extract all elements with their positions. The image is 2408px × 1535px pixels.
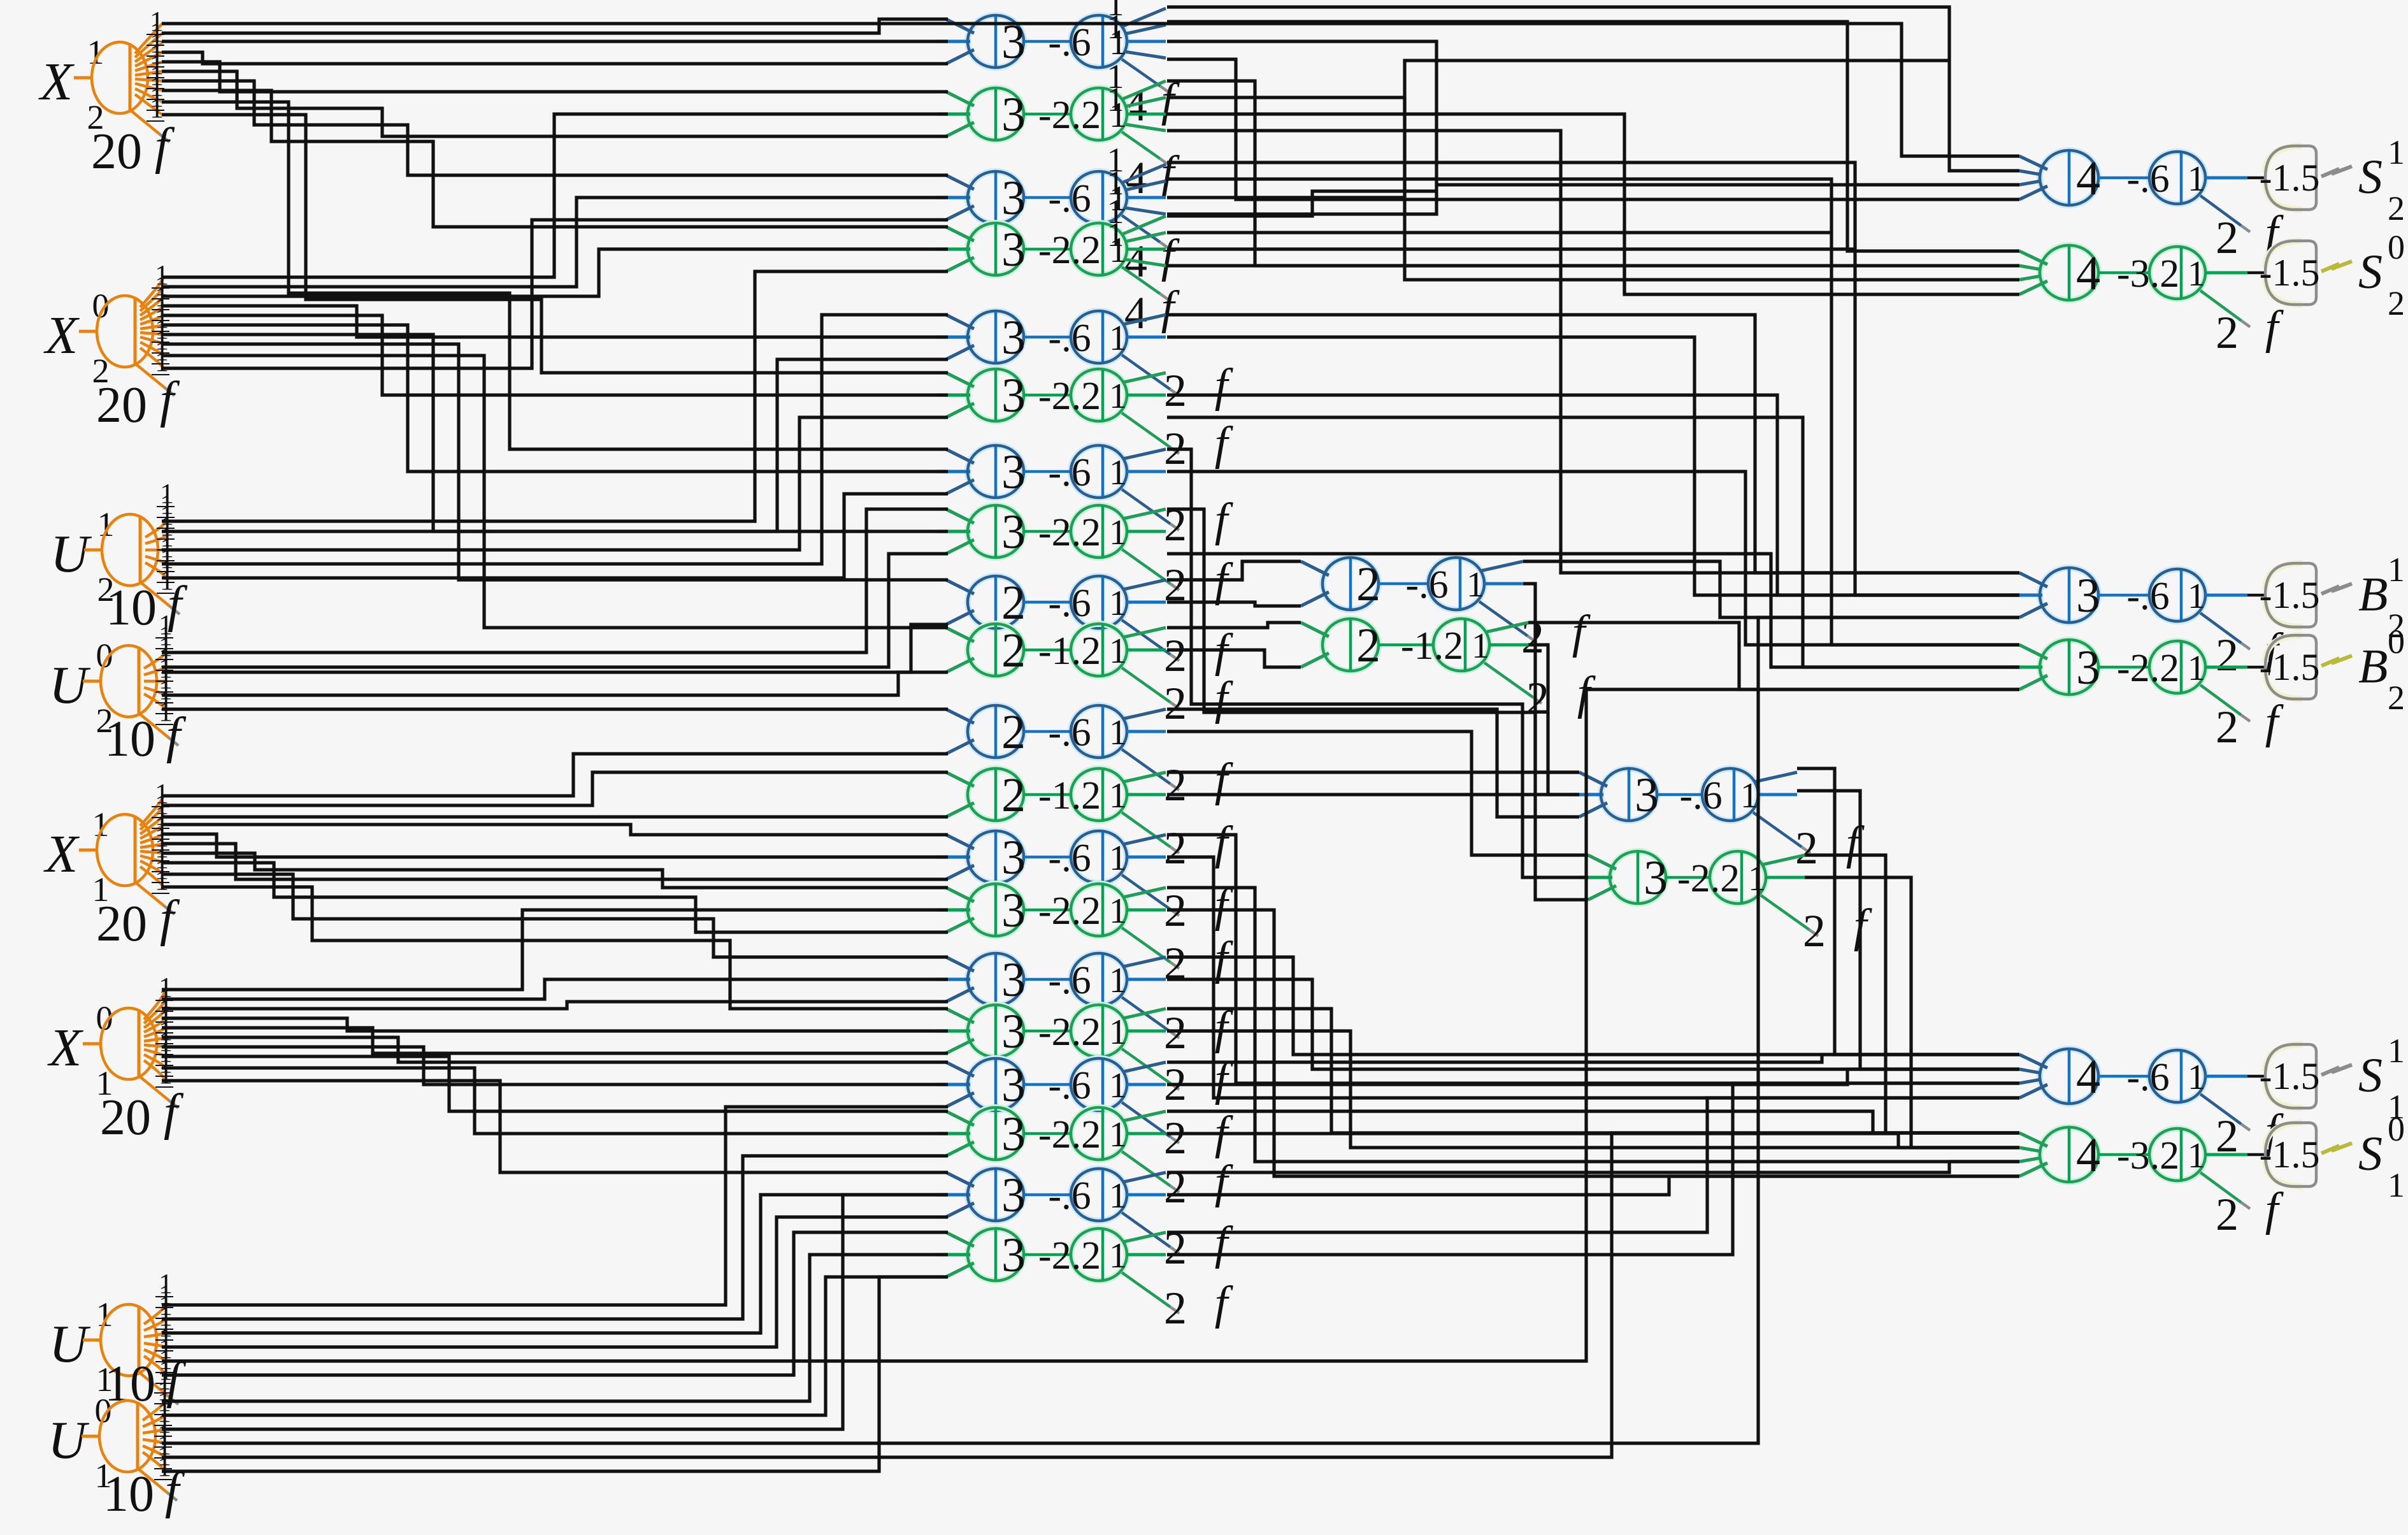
wire U1_0 out2 to N20 soma xyxy=(162,1277,948,1415)
svg-text:-2.2: -2.2 xyxy=(1038,94,1101,137)
wire N13 syn out2 to S1_1 soma xyxy=(1167,857,2019,1098)
wire N12 syn out1 to M3 soma xyxy=(1167,770,1579,774)
input neuron U1_1 (U11) xyxy=(49,1268,187,1412)
svg-text:-1.5: -1.5 xyxy=(2260,1134,2320,1176)
svg-text:-2.2: -2.2 xyxy=(1038,1113,1101,1157)
wire U2_1 out4 to N5 soma xyxy=(162,315,948,564)
neuron pair N13 (blue) xyxy=(937,831,1234,936)
wire M3 syn out1 to S1_1 soma xyxy=(1797,768,2019,1055)
svg-text:U: U xyxy=(49,656,91,715)
wire N3 syn out1 to B2_1 soma xyxy=(1167,162,2019,595)
neuron pair N6 (green) xyxy=(937,369,1234,474)
svg-text:20: 20 xyxy=(91,124,142,180)
svg-text:-.6: -.6 xyxy=(2126,575,2169,618)
wire N14 syn out2 to S1_0 soma xyxy=(1167,910,2019,1176)
svg-text:-.6: -.6 xyxy=(1048,582,1091,625)
neuron pair N20 (green) xyxy=(937,1229,1234,1334)
wire X1_1 out8 to N14 soma xyxy=(162,863,948,932)
svg-text:1: 1 xyxy=(1107,215,1124,254)
neuron pair M1 (blue) xyxy=(1301,558,1591,663)
wire U1_0 out5 to S1_0 soma xyxy=(162,1133,2019,1457)
svg-text:2: 2 xyxy=(1164,938,1187,989)
neuron pair M2 (green) xyxy=(1301,619,1596,724)
neuron pair N5 (blue) xyxy=(937,311,1234,416)
wire N9 syn out1 to M1 soma xyxy=(1167,561,1301,580)
svg-text:3: 3 xyxy=(1635,768,1659,822)
svg-text:-1.2: -1.2 xyxy=(1038,630,1101,673)
wire X2_0 out4 to N5 soma xyxy=(162,306,948,337)
wire N4 syn out1 junction xyxy=(1167,191,1437,216)
wire N11 syn out2 to M4 soma xyxy=(1167,731,1588,855)
wire X2_0 out10 to N3 soma xyxy=(162,220,948,368)
svg-text:2: 2 xyxy=(1164,760,1187,811)
svg-text:X: X xyxy=(47,1018,84,1077)
neuron pair N7 (blue) xyxy=(937,445,1234,551)
svg-text:10: 10 xyxy=(106,580,157,636)
wire X2_1 out2 to N1 soma xyxy=(162,19,948,33)
wire U1_1 out3 to N19 soma xyxy=(162,1195,948,1333)
input neuron U0_1 (U10) xyxy=(48,1364,185,1522)
svg-text:S: S xyxy=(2358,1127,2383,1181)
svg-text:2: 2 xyxy=(1164,1223,1187,1274)
wire X2_1 out7 to N3 soma xyxy=(162,81,948,175)
wire U2_1 out5 to N7 soma xyxy=(162,494,948,578)
svg-text:2: 2 xyxy=(1795,823,1818,874)
svg-text:2: 2 xyxy=(2388,189,2405,227)
svg-text:-2.2: -2.2 xyxy=(1038,890,1101,933)
neuron pair N3 (blue) xyxy=(937,141,1180,287)
svg-text:3: 3 xyxy=(1001,223,1026,277)
wire N10 syn out2 to M2 soma xyxy=(1167,650,1301,667)
svg-text:2: 2 xyxy=(2216,630,2239,681)
svg-text:B: B xyxy=(2358,568,2388,621)
svg-text:3: 3 xyxy=(1001,1107,1026,1161)
wire M1 syn out2 to M3 soma xyxy=(1523,584,1579,772)
wire X1_1 out6 to N13 soma xyxy=(162,844,948,879)
svg-text:3: 3 xyxy=(1001,369,1026,422)
wire X1_1 out1 to N11 soma xyxy=(162,754,948,796)
wire U1_1 out5 to B2_0 soma xyxy=(162,689,2019,1361)
wire U1_0 out3 to N19 soma xyxy=(162,1195,948,1429)
neuron pair N12 (green) xyxy=(946,768,1234,874)
svg-text:U: U xyxy=(50,524,92,584)
svg-text:2: 2 xyxy=(1164,823,1187,874)
svg-text:3: 3 xyxy=(1001,445,1026,499)
wire N7 syn out1 to M4 soma xyxy=(1167,449,1588,877)
input neuron X1_1 (X11) xyxy=(43,778,180,952)
svg-text:3: 3 xyxy=(1001,831,1026,884)
wire U2_0 out5 to N11 soma xyxy=(162,707,948,710)
svg-text:B: B xyxy=(2358,640,2388,693)
svg-text:-1.5: -1.5 xyxy=(2260,1055,2320,1097)
svg-text:-2.2: -2.2 xyxy=(1038,229,1101,272)
svg-text:10: 10 xyxy=(104,1356,155,1412)
wire U2_0 out2 to N8 soma xyxy=(162,554,948,667)
svg-text:3: 3 xyxy=(1001,1229,1026,1282)
wire X1_1 out3 to N12 soma xyxy=(162,815,948,818)
wire N6 syn out2 to B2_0 soma xyxy=(1167,417,2019,667)
wire X2_0 out2 to N3 soma xyxy=(162,198,948,287)
wire N6 syn out1 to B2_1 soma xyxy=(1167,395,2019,595)
svg-text:3: 3 xyxy=(1001,505,1026,559)
svg-text:3: 3 xyxy=(2076,641,2100,695)
wire X2_0 out5 to N6 soma xyxy=(162,315,948,395)
wire X2_1 out4 to N1 soma xyxy=(162,52,948,64)
svg-text:3: 3 xyxy=(1001,884,1026,937)
wire X1_0 out9 to N18 soma xyxy=(162,1068,948,1134)
wire X1_0 out2 to N15 soma xyxy=(162,979,948,999)
wire N17 syn out1 to S1_1 soma xyxy=(1167,1055,2019,1062)
svg-text:-2.2: -2.2 xyxy=(1677,857,1740,900)
wire U1_1 out4 to N19 soma xyxy=(162,1217,948,1347)
svg-text:2: 2 xyxy=(1356,558,1380,611)
svg-text:-.6: -.6 xyxy=(1679,774,1722,818)
svg-text:2: 2 xyxy=(2216,307,2239,358)
svg-text:1: 1 xyxy=(2388,551,2405,589)
svg-text:3: 3 xyxy=(2076,569,2100,623)
wire X1_0 out8 to N18 soma xyxy=(162,1056,948,1111)
neuron pair N8 (green) xyxy=(937,505,1234,610)
wire N9 syn out2 to M1 soma xyxy=(1167,602,1301,606)
svg-text:2: 2 xyxy=(1803,905,1826,956)
wire U1_0 out4 to B2_1 soma xyxy=(162,617,2019,1443)
wire X2_1 out9 to N7 soma xyxy=(162,102,948,449)
wire N16 syn out1 to S1_0 soma xyxy=(1167,1009,2019,1133)
output neuron pair R4 -> B0_2 xyxy=(2010,623,2405,753)
svg-text:-.6: -.6 xyxy=(1048,959,1091,1002)
svg-text:-1.5: -1.5 xyxy=(2260,157,2320,199)
wire X2_0 out3 to N4 soma xyxy=(162,249,948,296)
wire U2_0 out1 to N8 soma xyxy=(162,509,948,652)
svg-text:1: 1 xyxy=(1107,80,1124,119)
wire U1_0 out6 to N20 soma xyxy=(162,1277,948,1471)
svg-text:2: 2 xyxy=(1526,673,1549,724)
svg-text:2: 2 xyxy=(1164,630,1187,681)
svg-text:S: S xyxy=(2358,150,2383,204)
svg-text:1: 1 xyxy=(1107,8,1124,46)
svg-text:-2.2: -2.2 xyxy=(1038,375,1101,418)
wire M4 syn out1 to S1_0 soma xyxy=(1805,855,2019,1133)
svg-text:4: 4 xyxy=(2076,1050,2100,1104)
wire X1_1 out4 to N13 soma xyxy=(162,825,948,835)
wire N3 syn out2 to B2_0 soma xyxy=(1167,179,2019,645)
svg-text:-.6: -.6 xyxy=(1048,451,1091,494)
wire N18 syn out2 to S1_0 soma xyxy=(1167,1134,2019,1148)
wire N4 syn out2 junction xyxy=(1167,231,1831,234)
neuron pair N17 (blue) xyxy=(937,1058,1234,1164)
svg-text:3: 3 xyxy=(1001,1169,1026,1222)
svg-text:-1.2: -1.2 xyxy=(1038,774,1101,818)
wire N18 syn out1 to S1_0 soma xyxy=(1167,1111,2019,1133)
input neuron X0_1 (X10) xyxy=(47,972,184,1146)
wire N5 syn out2 to B2_1 soma xyxy=(1167,337,2019,595)
svg-text:U: U xyxy=(48,1411,90,1470)
svg-text:1: 1 xyxy=(2388,1032,2405,1070)
svg-text:2: 2 xyxy=(1521,612,1544,663)
neuron pair M3 (blue) xyxy=(1570,768,1865,874)
svg-text:1: 1 xyxy=(2188,254,2205,294)
wire N2 syn out2 to S2_0 soma xyxy=(1167,97,2019,280)
svg-text:-.6: -.6 xyxy=(1048,1064,1091,1107)
svg-text:2: 2 xyxy=(1164,1113,1187,1164)
neuron pair N2 (green) xyxy=(937,57,1180,203)
wire N12 syn out2 to M3 soma xyxy=(1167,793,1579,796)
svg-text:1: 1 xyxy=(2388,1166,2405,1204)
neuron pair N4 (green) xyxy=(937,192,1180,338)
svg-text:2: 2 xyxy=(1001,576,1026,630)
wire X2_1 out8 to N4 soma xyxy=(162,90,948,227)
input neuron X0_2 (X20) xyxy=(43,259,180,433)
svg-text:20: 20 xyxy=(96,896,147,952)
svg-text:0: 0 xyxy=(2388,1110,2405,1148)
svg-text:2: 2 xyxy=(1164,1283,1187,1334)
wire X2_1 out5 to N2 soma xyxy=(162,62,948,92)
wire X1_0 out7 to N17 soma xyxy=(162,1047,948,1085)
wire N1 syn out4 to S2_1 soma xyxy=(1167,59,2019,199)
wire X2_1 out10 to N6 soma xyxy=(162,115,948,373)
input neuron U0_2 (U20) xyxy=(49,609,187,767)
neuron pair N10 (green) xyxy=(946,624,1234,729)
svg-text:S: S xyxy=(2358,245,2383,299)
svg-text:4: 4 xyxy=(2076,152,2100,205)
neuron pair N1 (blue) xyxy=(937,0,1180,131)
wire X2_1 out6 to N2 soma xyxy=(162,71,948,136)
svg-text:-.6: -.6 xyxy=(1048,1174,1091,1218)
wire M4 syn out2 to S1_0 soma xyxy=(1805,877,2019,1148)
svg-text:2: 2 xyxy=(2388,284,2405,322)
wire N19 syn out1 to S1_0 soma xyxy=(1167,1162,2019,1172)
wire N16 syn out2 to S1_0 soma xyxy=(1167,1031,2019,1148)
wire X2_0 out6 to N7 soma xyxy=(162,325,948,472)
wire N3 syn out3 junction xyxy=(1167,61,1949,198)
wire N7 syn out2 to B2_0 soma xyxy=(1167,472,2019,645)
wire N20 syn out2 to S1_1 soma xyxy=(1167,1083,2019,1255)
svg-text:2: 2 xyxy=(1001,624,1026,677)
svg-text:-1.5: -1.5 xyxy=(2260,252,2320,294)
svg-text:2: 2 xyxy=(1164,1007,1187,1058)
svg-text:1: 1 xyxy=(2188,577,2205,616)
neuron pair N18 (green) xyxy=(937,1107,1234,1213)
wire X1_0 out3 to N15 soma xyxy=(162,1002,948,1009)
svg-text:-.6: -.6 xyxy=(1048,317,1091,360)
input neuron X1_2 (X21) xyxy=(38,6,175,180)
neuron pair M4 (green) xyxy=(1579,851,1873,956)
wire M3 syn out2 to S1_1 soma xyxy=(1797,791,2019,1069)
svg-text:20: 20 xyxy=(100,1090,151,1146)
wire N8 syn out2 to B2_0 soma xyxy=(1167,554,2019,667)
wire N4 syn out4 junction xyxy=(1167,266,1624,294)
wire X1_0 out4 to N16 soma xyxy=(162,1018,948,1031)
svg-text:X: X xyxy=(43,825,80,884)
input neuron U1_2 (U21) xyxy=(50,478,188,636)
svg-text:-3.2: -3.2 xyxy=(2117,252,2179,296)
wire N11 syn out1 to M3 soma xyxy=(1167,709,1579,817)
wire X1_1 out5 to N13 soma xyxy=(162,834,948,857)
svg-text:-1.5: -1.5 xyxy=(2260,574,2320,616)
svg-text:4: 4 xyxy=(2076,247,2100,300)
svg-text:-2.2: -2.2 xyxy=(2117,647,2179,690)
svg-text:2: 2 xyxy=(1164,678,1187,729)
wire N2 syn out4 to B2_1 soma xyxy=(1167,131,2019,573)
svg-text:-.6: -.6 xyxy=(2126,1056,2169,1099)
wire X1_0 out6 to N17 soma xyxy=(162,1037,948,1062)
svg-text:10: 10 xyxy=(103,1466,154,1522)
svg-text:-.6: -.6 xyxy=(1048,837,1091,880)
output neuron pair R5 -> S1_1 xyxy=(2019,1032,2405,1162)
svg-text:20: 20 xyxy=(96,377,147,433)
wire U2_0 out4 to N10 soma xyxy=(162,672,948,695)
wire N3 syn out4 junction xyxy=(1167,185,1437,214)
svg-text:1: 1 xyxy=(2188,159,2205,199)
neuron pair N19 (blue) xyxy=(937,1169,1234,1274)
svg-text:2: 2 xyxy=(1164,365,1187,416)
svg-text:1: 1 xyxy=(2188,649,2205,688)
wire N15 syn out1 to S1_1 soma xyxy=(1167,957,2019,1055)
svg-text:3: 3 xyxy=(1001,171,1026,225)
svg-text:10: 10 xyxy=(104,711,155,767)
output neuron pair R3 -> B1_2 xyxy=(2010,551,2405,681)
svg-text:2: 2 xyxy=(1164,500,1187,551)
neuron pair N11 (blue) xyxy=(946,705,1234,811)
svg-text:2: 2 xyxy=(2388,679,2405,717)
svg-text:-.6: -.6 xyxy=(1048,21,1091,64)
neuron pair N9 (blue) xyxy=(946,576,1234,681)
svg-text:0: 0 xyxy=(2388,623,2405,661)
wire U1_0 out1 to N20 soma xyxy=(162,1255,948,1401)
wire M2 syn out1 to B2_0 soma xyxy=(1528,623,2019,689)
wire X2_0 out8 to N9 soma xyxy=(162,344,948,580)
svg-text:2: 2 xyxy=(2216,702,2239,753)
wire X1_1 out9 to N15 soma xyxy=(162,874,948,957)
wire X1_0 out10 to N19 soma xyxy=(162,1081,948,1172)
wire X2_1 out3 to N1 soma xyxy=(162,40,948,43)
svg-text:3: 3 xyxy=(1644,851,1668,905)
wire N19 syn out2 to S1_0 soma xyxy=(1167,1176,2019,1195)
svg-text:2: 2 xyxy=(1001,768,1026,822)
svg-text:S: S xyxy=(2358,1049,2383,1102)
wire N5 syn out1 to B2_1 soma xyxy=(1167,315,2019,573)
svg-text:2: 2 xyxy=(1356,619,1380,672)
neuron pair N14 (green) xyxy=(937,884,1234,989)
svg-text:-2.2: -2.2 xyxy=(1038,1234,1101,1278)
wire N20 syn out1 to S1_1 soma xyxy=(1167,1098,2019,1232)
svg-text:2: 2 xyxy=(2216,1189,2239,1240)
neuron pair N16 (green) xyxy=(937,1005,1234,1110)
output neuron pair R6 -> S0_1 xyxy=(2019,1110,2405,1240)
svg-text:-.6: -.6 xyxy=(1048,177,1091,220)
svg-text:3: 3 xyxy=(1001,88,1026,141)
wire X1_0 out1 to N14 soma xyxy=(162,910,948,990)
svg-text:2: 2 xyxy=(1164,1162,1187,1213)
wire X2_0 out9 to N10 soma xyxy=(162,356,948,628)
wire N2 syn out1 to S2_0 soma xyxy=(1167,81,2019,266)
wire X1_1 out2 to N12 soma xyxy=(162,772,948,805)
neuron pair N15 (blue) xyxy=(937,953,1234,1058)
output neuron pair R2 -> S0_2 xyxy=(2019,228,2405,358)
wire X2_0 out7 to N8 soma xyxy=(162,335,948,531)
svg-text:-.6: -.6 xyxy=(1405,563,1448,607)
svg-text:-2.2: -2.2 xyxy=(1038,1011,1101,1054)
wire N1 syn out3 to S2_1 soma xyxy=(1167,41,2019,185)
wire N1 syn out1 to S2_1 soma xyxy=(1167,7,2019,171)
svg-text:-1.2: -1.2 xyxy=(1401,624,1463,668)
svg-text:X: X xyxy=(38,52,75,112)
wire U2_0 out3 to N9 soma xyxy=(162,624,948,672)
svg-text:1: 1 xyxy=(2388,133,2405,171)
wire N17 syn out2 to S1_1 soma xyxy=(1167,1069,2019,1085)
svg-text:3: 3 xyxy=(1001,1058,1026,1112)
svg-text:U: U xyxy=(49,1315,91,1374)
wire X2_0 out1 to N2 soma xyxy=(162,114,948,277)
svg-text:1: 1 xyxy=(2188,1058,2205,1097)
svg-text:0: 0 xyxy=(2388,228,2405,266)
svg-text:2: 2 xyxy=(2216,212,2239,263)
wire U1_1 out1 to N17 soma xyxy=(162,1107,948,1305)
svg-text:-.6: -.6 xyxy=(2126,157,2169,201)
wire U1_1 out6 to N20 soma xyxy=(162,1232,948,1375)
svg-text:3: 3 xyxy=(1001,311,1026,364)
wire N2 syn out3 to S2_0 soma xyxy=(1167,114,2019,294)
svg-text:X: X xyxy=(43,306,80,365)
wire X1_1 out10 to N16 soma xyxy=(162,887,948,1009)
wire X2_1 out1 to S2_1 soma xyxy=(162,24,2019,156)
wire U1_1 out2 to N18 soma xyxy=(162,1156,948,1319)
wire N1 syn out2 to S2_0 soma xyxy=(1167,22,2019,251)
svg-text:-3.2: -3.2 xyxy=(2117,1134,2179,1178)
svg-text:4: 4 xyxy=(2076,1128,2100,1182)
svg-text:-.6: -.6 xyxy=(1048,711,1091,754)
wire N8 syn out1 to M4 soma xyxy=(1167,509,1588,900)
wire N15 syn out2 to S1_1 soma xyxy=(1167,979,2019,1069)
wire N4 syn out3 junction xyxy=(1167,247,1855,250)
wire N13 syn out1 to S1_1 soma xyxy=(1167,835,2019,1083)
wire U2_1 out3 to N6 soma xyxy=(162,417,948,550)
wire M1 syn out1 to B2_1 soma xyxy=(1523,561,2019,617)
wire N10 syn out1 to M2 soma xyxy=(1167,623,1301,628)
wire U2_1 out2 to N5 soma xyxy=(162,359,948,531)
svg-text:-2.2: -2.2 xyxy=(1038,511,1101,554)
svg-text:2: 2 xyxy=(1001,705,1026,759)
svg-text:1: 1 xyxy=(2188,1136,2205,1176)
wire N14 syn out1 to S1_0 soma xyxy=(1167,888,2019,1162)
output neuron pair R1 -> S1_2 xyxy=(2019,133,2405,263)
wire U2_1 out1 to N4 soma xyxy=(162,271,948,521)
svg-text:-1.5: -1.5 xyxy=(2260,646,2320,688)
wire X1_1 out7 to N14 soma xyxy=(162,853,948,888)
svg-text:3: 3 xyxy=(1001,1005,1026,1058)
svg-text:3: 3 xyxy=(1001,953,1026,1007)
wire M2 syn out2 to M3 soma xyxy=(1528,645,1579,795)
wire X1_0 out5 to N16 soma xyxy=(162,1028,948,1053)
